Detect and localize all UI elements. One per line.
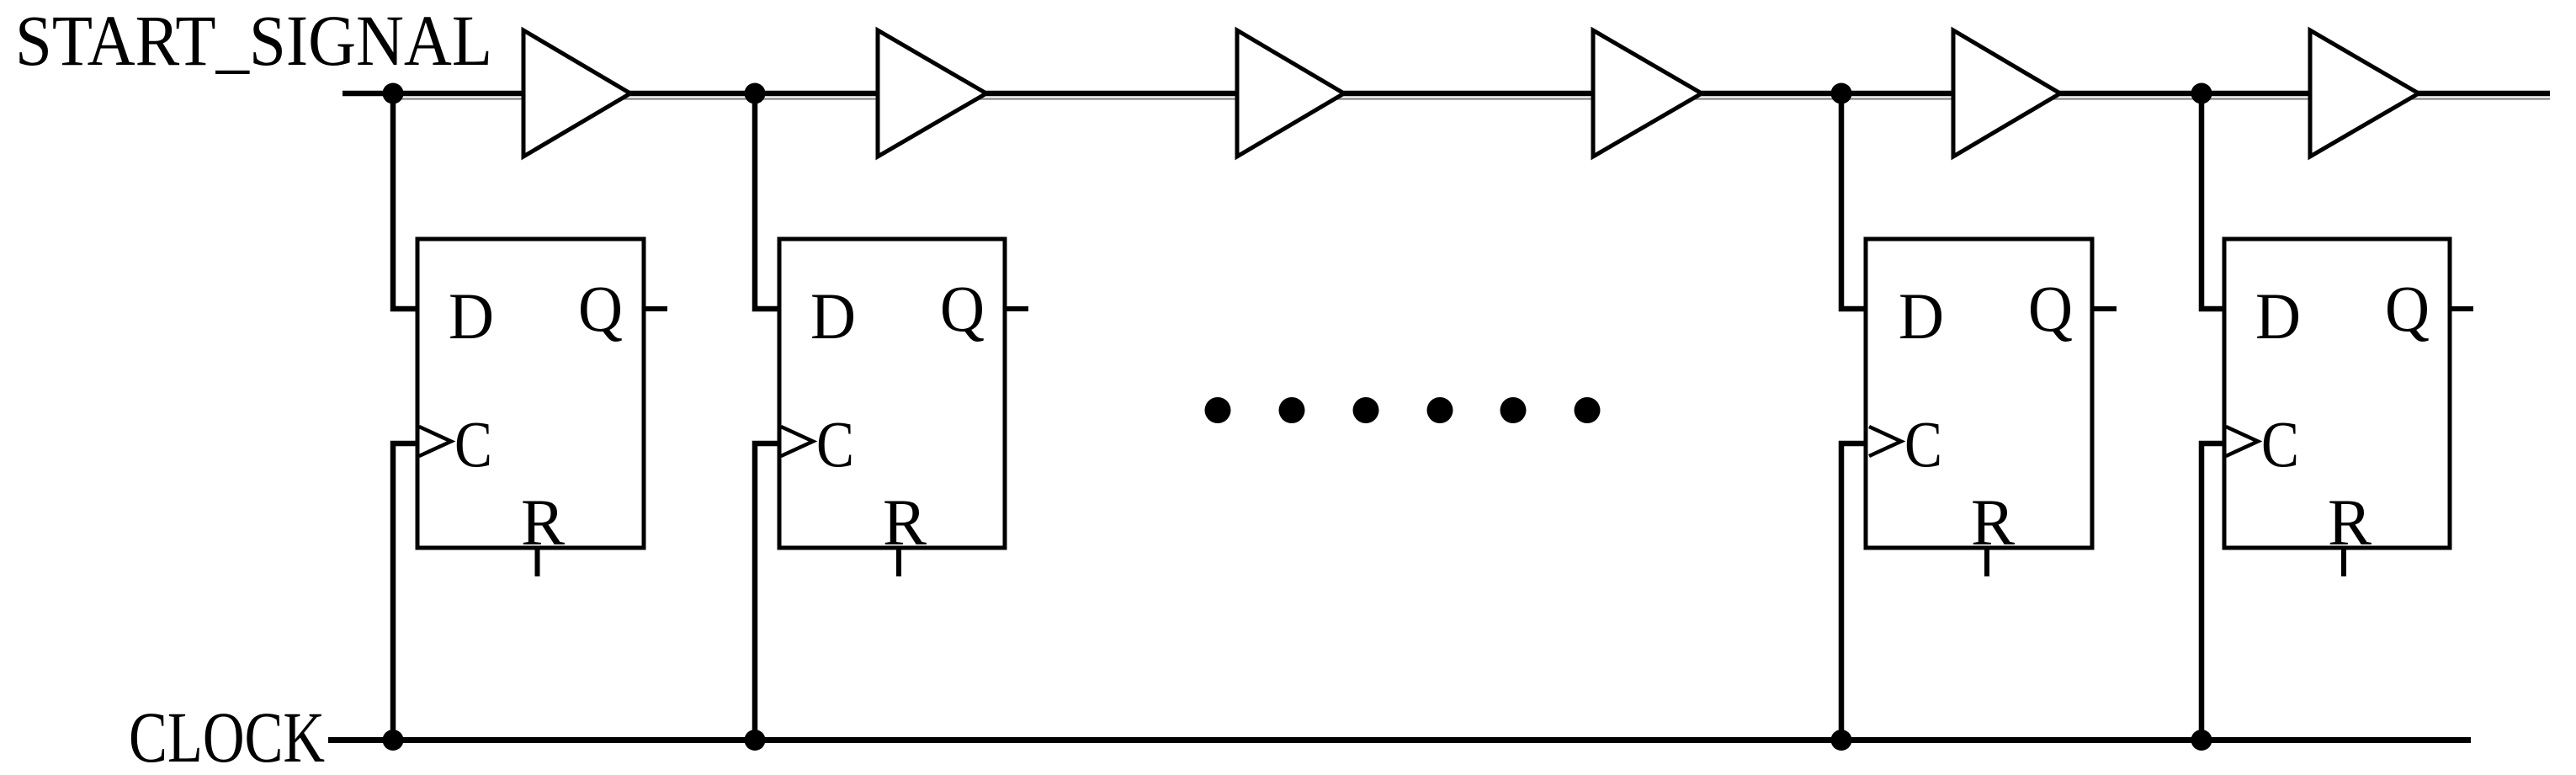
buffer U3 <box>1237 30 1344 157</box>
buffer U4 <box>1593 30 1702 157</box>
junction: top net tap 3 <box>1831 83 1852 104</box>
FF3 pin label Q <box>2028 272 2073 345</box>
svg-text:C: C <box>454 407 492 480</box>
buffer U6 <box>2310 30 2419 157</box>
FF1 pin label R <box>521 486 565 559</box>
wire: tap 3 to FF3 D input <box>1841 93 1866 309</box>
svg-text:C: C <box>2261 407 2299 480</box>
FF1 pin label Q <box>578 272 623 345</box>
net label CLOCK <box>129 697 325 775</box>
svg-text:START_SIGNAL: START_SIGNAL <box>15 0 492 81</box>
FF2 pin label D <box>810 279 856 353</box>
svg-text:D: D <box>449 279 494 353</box>
wire: clock net to FF2 C input <box>755 443 778 740</box>
svg-text:R: R <box>521 486 565 559</box>
FF4 clock edge triangle <box>2226 427 2258 456</box>
junction: clock net at FF4 <box>2191 730 2212 751</box>
FF4 pin label R <box>2328 486 2372 559</box>
FF3 pin label C <box>1904 407 1942 480</box>
junction: clock net at FF3 <box>1831 730 1852 751</box>
D flip-flop FF1 (box) <box>417 239 644 548</box>
wire: tap 1 to FF1 D input <box>393 93 416 309</box>
FF2 pin label Q <box>940 272 985 345</box>
svg-text:CLOCK: CLOCK <box>129 697 325 775</box>
D flip-flop FF3 (box) <box>1866 239 2092 548</box>
wire: clock distribution net <box>328 737 2471 743</box>
buffer U2 <box>878 30 986 157</box>
svg-text:Q: Q <box>578 272 623 345</box>
wire: top net echo (faint double-draw artifact) <box>396 98 2550 100</box>
FF2 pin label R <box>883 486 927 559</box>
svg-text:R: R <box>883 486 927 559</box>
svg-text:R: R <box>2328 486 2372 559</box>
wire: clock net to FF1 C input <box>393 443 416 740</box>
wire: tap 4 to FF4 D input <box>2202 93 2223 309</box>
D flip-flop FF2 (box) <box>779 239 1005 548</box>
wire: FF4 Q output stub <box>2451 306 2473 311</box>
svg-text:Q: Q <box>940 272 985 345</box>
svg-text:R: R <box>1971 486 2015 559</box>
junction: top net tap 4 <box>2191 83 2212 104</box>
svg-text:C: C <box>816 407 854 480</box>
wire: clock net to FF3 C input <box>1841 443 1866 740</box>
FF2 clock edge triangle <box>781 427 813 456</box>
junction: top net tap 2 <box>745 83 766 104</box>
wire: FF1 Q output stub <box>645 306 667 311</box>
junction: clock net at FF2 <box>745 730 766 751</box>
wire: FF3 R stub <box>1984 548 1989 576</box>
wire: FF3 Q output stub <box>2094 306 2117 311</box>
svg-text:D: D <box>2255 279 2301 353</box>
wire: tap 2 to FF2 D input <box>755 93 778 309</box>
svg-text:C: C <box>1904 407 1942 480</box>
D flip-flop FF4 (box) <box>2224 239 2450 548</box>
svg-text:Q: Q <box>2385 272 2430 345</box>
FF4 pin label C <box>2261 407 2299 480</box>
net label START_SIGNAL <box>15 0 492 81</box>
FF4 pin label D <box>2255 279 2301 353</box>
FF4 pin label Q <box>2385 272 2430 345</box>
FF1 pin label C <box>454 407 492 480</box>
ellipsis: repeated delay stages <box>1205 397 1601 423</box>
wire: clock net to FF4 C input <box>2202 443 2223 740</box>
FF3 pin label D <box>1899 279 1944 353</box>
svg-text:D: D <box>810 279 856 353</box>
svg-text:D: D <box>1899 279 1944 353</box>
FF3 clock edge triangle <box>1869 427 1901 456</box>
FF2 pin label C <box>816 407 854 480</box>
FF1 clock edge triangle <box>419 427 451 456</box>
wire: FF4 R stub <box>2341 548 2346 576</box>
buffer U5 <box>1953 30 2060 157</box>
svg-text:Q: Q <box>2028 272 2073 345</box>
FF3 pin label R <box>1971 486 2015 559</box>
wire: FF1 R stub <box>535 548 540 576</box>
junction: clock net at FF1 <box>383 730 404 751</box>
junction: top net tap 1 <box>383 83 404 104</box>
FF1 pin label D <box>449 279 494 353</box>
wire: FF2 R stub <box>896 548 901 576</box>
wire: FF2 Q output stub <box>1006 306 1028 311</box>
wire: top delay-line net (START_SIGNAL) <box>343 91 2550 97</box>
buffer U1 <box>523 30 630 157</box>
